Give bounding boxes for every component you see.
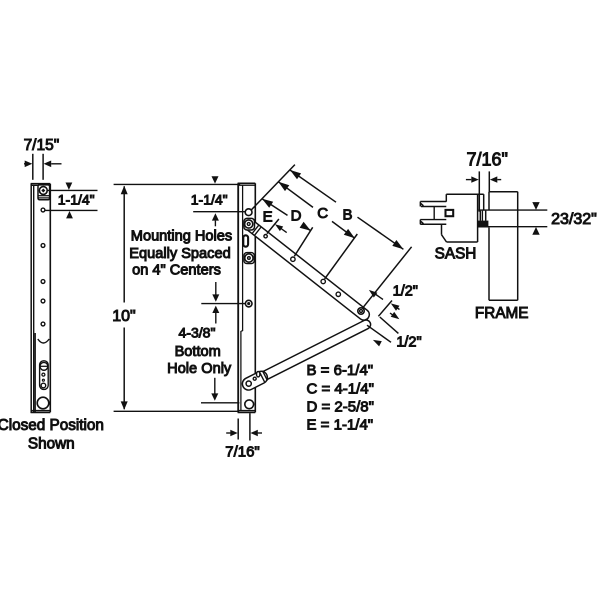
svg-text:4-3/8": 4-3/8" [179, 324, 216, 340]
svg-text:1-1/4": 1-1/4" [191, 191, 228, 207]
svg-text:E = 1-1/4": E = 1-1/4" [307, 417, 374, 434]
dimension line B [290, 170, 336, 202]
extension line from H1 [267, 219, 279, 234]
svg-text:Equally Spaced: Equally Spaced [129, 246, 230, 262]
dimension 1-1/4 inch (left bar top hole) [47, 189, 98, 191]
extension line from H5 [363, 247, 412, 308]
dimension 10 inch overall [114, 183, 241, 185]
svg-text:B = 6-1/4": B = 6-1/4" [307, 362, 374, 379]
arm hole H3 [321, 279, 325, 283]
svg-text:23/32": 23/32" [551, 211, 597, 228]
shoe capsule on track [240, 369, 269, 392]
arrow to middle hole line [215, 282, 217, 295]
sash channel profile [420, 201, 446, 203]
svg-text:D = 2-5/8": D = 2-5/8" [307, 399, 374, 416]
arm pivot rivet [245, 220, 253, 228]
svg-text:on 4" Centers: on 4" Centers [132, 262, 221, 278]
svg-text:C = 4-1/4": C = 4-1/4" [307, 380, 374, 397]
extension line from H2 [294, 227, 312, 256]
left track bar outline (closed hinge) [30, 184, 32, 413]
left bar arm end arc [38, 339, 49, 343]
left bar pivot housing [38, 185, 50, 200]
dimension 1/2 inch (link end) [367, 325, 391, 342]
dimension 7/16 inch (track width) [237, 419, 239, 440]
left bar pivot rivet [39, 187, 47, 195]
track rivet housing [244, 253, 254, 264]
common extension line from track top hole [251, 165, 295, 210]
arm end rivet H5 [358, 308, 364, 314]
svg-text:SASH: SASH [435, 245, 477, 262]
dimension 1-1/4 inch (track top hole) [212, 176, 219, 183]
extension line from H3 [325, 234, 358, 279]
left bar folded arm edge [34, 333, 36, 412]
track top mounting hole [245, 209, 252, 216]
link arm (shoe to arm end) [242, 318, 372, 390]
sash body outline [446, 193, 483, 195]
svg-text:Shown: Shown [28, 435, 75, 452]
svg-text:D: D [291, 207, 302, 224]
svg-text:C: C [317, 205, 328, 222]
frame profile [483, 194, 485, 210]
arrow to bottom hole line [214, 378, 216, 395]
dimension 23/32 inch [478, 209, 547, 211]
svg-text:1-1/4": 1-1/4" [58, 192, 95, 208]
track middle mounting hole [245, 300, 252, 307]
track slot [243, 235, 248, 246]
svg-text:Hole Only: Hole Only [167, 361, 232, 377]
svg-text:7/15": 7/15" [24, 137, 60, 154]
left bar bottom mounting hole [37, 397, 49, 409]
svg-text:B: B [342, 206, 352, 223]
hinge track cross-section between sash and frame [479, 211, 481, 221]
middle track bar outline [237, 183, 239, 412]
shoe cross-section (solid) [478, 221, 489, 228]
svg-text:10": 10" [112, 308, 135, 325]
left bar mounting holes [41, 208, 45, 212]
svg-text:Mounting Holes: Mounting Holes [131, 229, 232, 245]
svg-text:E: E [263, 209, 273, 226]
arm hole H4 [336, 292, 340, 296]
svg-text:FRAME: FRAME [475, 305, 529, 322]
svg-text:Bottom: Bottom [175, 344, 221, 360]
left bar lock slider [40, 361, 49, 390]
dimension line D [262, 199, 288, 216]
dimension line C [278, 182, 313, 208]
svg-text:1/2": 1/2" [396, 335, 421, 351]
svg-text:Closed Position: Closed Position [0, 417, 104, 434]
svg-text:1/2": 1/2" [393, 284, 418, 300]
main hinge arm [242, 217, 372, 322]
svg-text:7/16": 7/16" [225, 443, 260, 460]
dimension 1/2 inch (H5 to arm end) [369, 290, 378, 298]
track bottom mounting hole [245, 400, 254, 409]
hinge track cross-section in sash channel [446, 210, 454, 216]
arm hole H1 [264, 235, 267, 238]
arm pivot housing [244, 218, 255, 230]
arm hole H2 [291, 257, 295, 261]
svg-text:7/16": 7/16" [466, 149, 507, 169]
